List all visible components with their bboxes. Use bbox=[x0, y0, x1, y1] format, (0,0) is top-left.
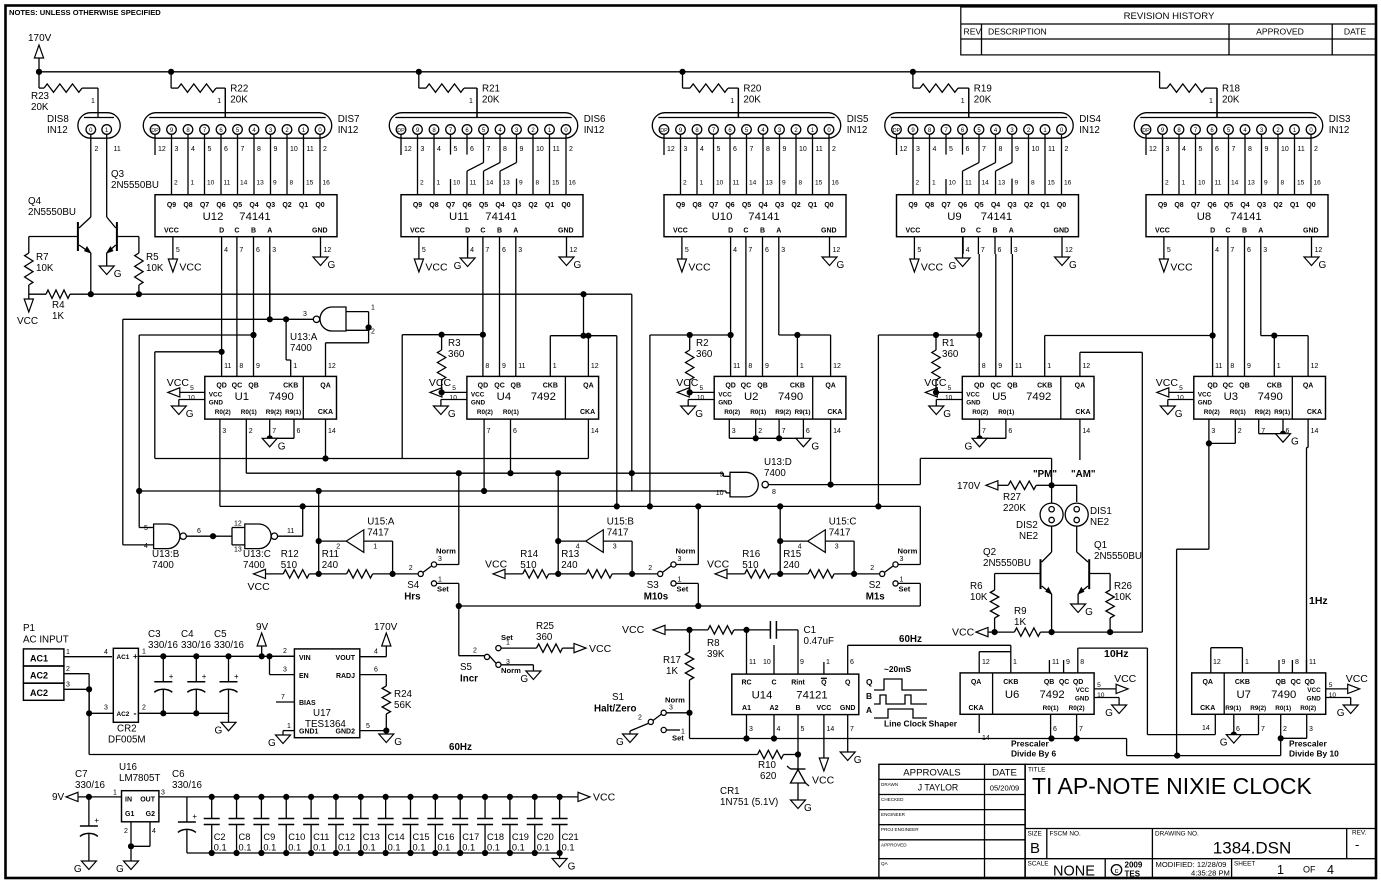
svg-text:VCC: VCC bbox=[966, 392, 980, 399]
revision history table bbox=[961, 7, 1377, 55]
svg-text:R7: R7 bbox=[36, 252, 49, 263]
wires DIS7 cathodes bbox=[172, 134, 321, 195]
svg-text:0.47uF: 0.47uF bbox=[804, 636, 835, 647]
svg-text:5: 5 bbox=[422, 247, 426, 254]
svg-text:20K: 20K bbox=[230, 95, 248, 106]
svg-text:510: 510 bbox=[520, 560, 537, 571]
svg-text:G: G bbox=[616, 737, 624, 748]
svg-text:9: 9 bbox=[782, 180, 786, 187]
nixie tube DIS3 IN12 bbox=[1134, 113, 1351, 153]
svg-text:Q3: Q3 bbox=[1257, 202, 1266, 209]
svg-text:NONE: NONE bbox=[1053, 864, 1095, 880]
svg-text:2: 2 bbox=[1283, 726, 1287, 733]
wire U4 CKA bbox=[587, 419, 589, 458]
svg-text:RC: RC bbox=[741, 680, 751, 687]
svg-text:Q9: Q9 bbox=[167, 202, 176, 209]
svg-text:FSCM NO.: FSCM NO. bbox=[1050, 831, 1081, 838]
svg-text:7: 7 bbox=[850, 726, 854, 733]
svg-text:C4: C4 bbox=[181, 629, 194, 640]
power 170V PM bbox=[957, 481, 1008, 492]
svg-text:2: 2 bbox=[638, 715, 642, 722]
svg-text:3: 3 bbox=[104, 705, 108, 712]
svg-text:7492: 7492 bbox=[1026, 391, 1051, 403]
resistor R25 360 bbox=[501, 621, 574, 652]
svg-text:DIS8: DIS8 bbox=[47, 114, 69, 125]
svg-text:NE2: NE2 bbox=[1019, 531, 1038, 542]
wire QB to U13:B bbox=[139, 332, 256, 527]
svg-text:0.1: 0.1 bbox=[214, 843, 227, 853]
svg-text:8: 8 bbox=[1281, 180, 1285, 187]
svg-text:VCC: VCC bbox=[485, 559, 508, 571]
power VCC U12 bbox=[168, 237, 202, 274]
svg-text:1: 1 bbox=[1209, 98, 1213, 105]
svg-text:R17: R17 bbox=[663, 655, 681, 666]
svg-text:U10: U10 bbox=[712, 211, 733, 223]
zener diode CR1 1N751 bbox=[720, 755, 809, 809]
svg-text:Q2: Q2 bbox=[282, 202, 291, 209]
ground U5 bbox=[929, 400, 963, 421]
svg-text:4: 4 bbox=[104, 649, 108, 656]
svg-text:2: 2 bbox=[683, 180, 687, 187]
svg-text:R25: R25 bbox=[536, 621, 555, 632]
wire DIS4 DP stub bbox=[896, 134, 898, 155]
svg-text:7490: 7490 bbox=[1271, 689, 1296, 701]
svg-text:G: G bbox=[1291, 437, 1299, 448]
svg-text:R10: R10 bbox=[758, 760, 777, 771]
svg-text:10: 10 bbox=[1281, 146, 1289, 153]
svg-text:0.1: 0.1 bbox=[288, 843, 301, 853]
svg-text:G2: G2 bbox=[146, 811, 155, 818]
svg-text:A: A bbox=[776, 228, 781, 235]
svg-text:C: C bbox=[743, 228, 748, 235]
svg-text:C1: C1 bbox=[804, 625, 817, 636]
wires DIS5 cathodes bbox=[681, 134, 830, 195]
svg-text:G: G bbox=[965, 441, 973, 452]
svg-text:U13:A: U13:A bbox=[290, 332, 318, 343]
resistor R24 56K bbox=[382, 686, 412, 731]
svg-text:10: 10 bbox=[1032, 146, 1040, 153]
title box bbox=[1025, 764, 1376, 879]
svg-text:10: 10 bbox=[1176, 395, 1184, 402]
ground U9 D pin bbox=[949, 237, 971, 272]
svg-text:R26: R26 bbox=[1114, 581, 1133, 592]
wire U2 CKB QA loop bbox=[795, 332, 831, 376]
svg-text:8: 8 bbox=[766, 146, 770, 153]
svg-text:7: 7 bbox=[782, 428, 786, 435]
svg-text:QC: QC bbox=[232, 383, 243, 390]
ground S1 bbox=[616, 734, 638, 748]
svg-text:6: 6 bbox=[470, 146, 474, 153]
svg-text:VCC: VCC bbox=[589, 643, 612, 655]
wire DIS3 DP stub bbox=[1145, 134, 1147, 155]
svg-text:5: 5 bbox=[917, 247, 921, 254]
svg-text:11: 11 bbox=[470, 180, 477, 187]
svg-text:12: 12 bbox=[234, 521, 242, 528]
capacitor C3 330/16 bbox=[148, 629, 179, 713]
svg-text:G: G bbox=[943, 409, 951, 420]
svg-text:1: 1 bbox=[438, 577, 442, 584]
svg-text:C6: C6 bbox=[172, 769, 185, 780]
svg-text:13: 13 bbox=[766, 180, 774, 187]
svg-text:240: 240 bbox=[783, 560, 800, 571]
svg-text:B: B bbox=[1242, 228, 1247, 235]
svg-text:14: 14 bbox=[1202, 725, 1210, 732]
svg-text:IN12: IN12 bbox=[1329, 125, 1350, 136]
svg-text:U2: U2 bbox=[744, 391, 758, 403]
svg-text:VCC: VCC bbox=[425, 262, 448, 274]
svg-text:Q0: Q0 bbox=[1306, 202, 1315, 209]
svg-text:QA: QA bbox=[583, 383, 594, 390]
svg-text:Q2: Q2 bbox=[983, 547, 996, 558]
svg-text:2: 2 bbox=[420, 180, 424, 187]
resistor R13 240 bbox=[558, 549, 635, 578]
svg-text:G: G bbox=[811, 441, 819, 452]
svg-text:2: 2 bbox=[1238, 428, 1242, 435]
svg-text:A: A bbox=[866, 705, 872, 715]
svg-text:2: 2 bbox=[832, 146, 836, 153]
svg-text:Q2: Q2 bbox=[528, 202, 537, 209]
svg-text:G: G bbox=[215, 725, 223, 736]
svg-text:11: 11 bbox=[733, 180, 740, 187]
svg-text:7417: 7417 bbox=[829, 528, 851, 539]
svg-text:6: 6 bbox=[374, 667, 378, 674]
svg-text:DP: DP bbox=[397, 128, 405, 134]
svg-text:7: 7 bbox=[982, 146, 986, 153]
svg-text:QC: QC bbox=[1290, 679, 1301, 686]
svg-text:C14: C14 bbox=[388, 832, 405, 842]
svg-text:DIS1: DIS1 bbox=[1090, 506, 1112, 517]
svg-text:S2: S2 bbox=[869, 580, 881, 591]
svg-text:9: 9 bbox=[800, 659, 804, 666]
one-shot U14 74121 bbox=[732, 674, 859, 715]
svg-text:VCC: VCC bbox=[1156, 377, 1179, 389]
ground U2 reset pins bbox=[729, 419, 819, 452]
wire anode DIS3 bbox=[1216, 88, 1218, 117]
svg-text:QD: QD bbox=[1304, 679, 1315, 686]
svg-text:6: 6 bbox=[513, 428, 517, 435]
svg-text:8: 8 bbox=[772, 489, 776, 496]
svg-text:C11: C11 bbox=[313, 832, 329, 842]
svg-text:EN: EN bbox=[299, 673, 309, 680]
svg-text:QC: QC bbox=[991, 383, 1002, 390]
svg-text:1: 1 bbox=[1277, 363, 1281, 370]
svg-text:11: 11 bbox=[287, 528, 294, 535]
svg-text:A: A bbox=[1258, 228, 1263, 235]
svg-text:C8: C8 bbox=[239, 832, 251, 842]
wires U2 top pins bbox=[733, 363, 841, 370]
svg-text:+: + bbox=[202, 672, 207, 681]
svg-text:+: + bbox=[169, 672, 174, 681]
wire cap bank gnd bus bbox=[187, 852, 560, 854]
svg-text:B: B bbox=[1030, 840, 1040, 857]
line clock shaper waveforms bbox=[866, 664, 958, 729]
ground U11 bbox=[559, 237, 582, 271]
svg-text:GND: GND bbox=[840, 705, 856, 712]
svg-text:9: 9 bbox=[1282, 659, 1286, 666]
svg-text:1K: 1K bbox=[666, 666, 678, 677]
svg-text:240: 240 bbox=[322, 560, 339, 571]
wire U7 QA loop bbox=[1211, 648, 1249, 673]
svg-text:CKB: CKB bbox=[1267, 383, 1282, 390]
svg-text:2: 2 bbox=[569, 146, 573, 153]
capacitor C7 330/16 bbox=[75, 769, 106, 861]
svg-text:9: 9 bbox=[273, 180, 277, 187]
svg-text:14: 14 bbox=[827, 726, 835, 733]
svg-text:10: 10 bbox=[763, 659, 771, 666]
svg-text:7400: 7400 bbox=[152, 560, 174, 571]
svg-text:3: 3 bbox=[1309, 726, 1313, 733]
nixie tube DIS5 IN12 bbox=[652, 113, 869, 153]
svg-text:G: G bbox=[568, 862, 576, 873]
svg-text:05/20/09: 05/20/09 bbox=[990, 784, 1020, 793]
wires U8 to U3 bbox=[1213, 254, 1275, 376]
svg-text:IN: IN bbox=[125, 797, 132, 804]
svg-text:16: 16 bbox=[832, 180, 840, 187]
svg-text:+: + bbox=[192, 812, 197, 821]
svg-text:7490: 7490 bbox=[778, 391, 803, 403]
svg-text:G: G bbox=[74, 864, 82, 875]
svg-text:G1: G1 bbox=[125, 811, 134, 818]
wire DIS7 DP stub bbox=[154, 134, 156, 155]
svg-text:GND: GND bbox=[718, 400, 733, 407]
svg-text:QD: QD bbox=[216, 383, 227, 390]
svg-text:16: 16 bbox=[569, 180, 577, 187]
svg-text:QA: QA bbox=[1303, 383, 1314, 390]
svg-text:Q6: Q6 bbox=[216, 202, 225, 209]
svg-text:Q3: Q3 bbox=[775, 202, 784, 209]
svg-text:Q: Q bbox=[821, 680, 827, 687]
svg-text:4: 4 bbox=[733, 247, 737, 254]
svg-text:GND: GND bbox=[471, 400, 486, 407]
svg-text:1Hz: 1Hz bbox=[1309, 595, 1328, 607]
wire VIN bbox=[270, 648, 295, 656]
ground U8 bbox=[1304, 237, 1327, 271]
counter U5 7492 bbox=[962, 376, 1094, 419]
svg-text:B: B bbox=[497, 228, 502, 235]
wires U6 R0 pins divide by 6 bbox=[1011, 714, 1083, 758]
svg-text:7: 7 bbox=[748, 247, 752, 254]
svg-text:12: 12 bbox=[833, 247, 841, 254]
svg-text:Q6: Q6 bbox=[958, 202, 967, 209]
svg-text:4: 4 bbox=[374, 649, 378, 656]
svg-text:G: G bbox=[574, 260, 582, 271]
switch S2 M1s bbox=[854, 547, 920, 607]
svg-text:14: 14 bbox=[328, 428, 336, 435]
svg-text:G: G bbox=[116, 864, 124, 875]
svg-text:12: 12 bbox=[667, 146, 675, 153]
svg-text:11: 11 bbox=[733, 363, 740, 370]
svg-text:0.1: 0.1 bbox=[487, 843, 500, 853]
svg-text:4: 4 bbox=[576, 544, 580, 551]
svg-text:DF005M: DF005M bbox=[108, 735, 146, 746]
svg-text:B: B bbox=[251, 228, 256, 235]
svg-text:Q3: Q3 bbox=[512, 202, 521, 209]
svg-text:VCC: VCC bbox=[812, 775, 835, 787]
svg-text:R9(1): R9(1) bbox=[1274, 409, 1290, 416]
svg-text:CKA: CKA bbox=[1200, 705, 1215, 712]
svg-text:2N5550BU: 2N5550BU bbox=[1094, 551, 1142, 562]
buffer U15:C 7417 bbox=[778, 506, 857, 574]
svg-text:Set: Set bbox=[501, 633, 513, 642]
svg-text:VCC: VCC bbox=[1170, 262, 1193, 274]
wire U6 CKA bbox=[979, 714, 990, 742]
svg-text:9: 9 bbox=[502, 363, 506, 370]
svg-text:IN12: IN12 bbox=[847, 125, 868, 136]
svg-text:IN12: IN12 bbox=[1079, 125, 1100, 136]
wire U1 QA bbox=[326, 330, 369, 376]
svg-text:Q8: Q8 bbox=[183, 202, 192, 209]
svg-text:Q7: Q7 bbox=[1191, 202, 1200, 209]
svg-text:Q2: Q2 bbox=[1024, 202, 1033, 209]
svg-text:R11: R11 bbox=[322, 549, 339, 560]
svg-text:GND: GND bbox=[1306, 696, 1321, 703]
svg-text:8: 8 bbox=[485, 363, 489, 370]
wires U10 BCD outputs bbox=[731, 237, 786, 254]
counter U1 7490 bbox=[205, 376, 337, 419]
nixie tube DIS7 IN12 bbox=[143, 113, 359, 153]
wires U12 BCD outputs bbox=[222, 237, 277, 254]
svg-text:C17: C17 bbox=[462, 832, 479, 842]
svg-text:Q0: Q0 bbox=[315, 202, 324, 209]
wire DIS8 pin0 bbox=[90, 134, 92, 217]
svg-text:1: 1 bbox=[730, 98, 734, 105]
svg-text:CR1: CR1 bbox=[720, 786, 740, 797]
wires U9 BCD outputs bbox=[963, 237, 1018, 254]
svg-text:CKA: CKA bbox=[827, 409, 842, 416]
svg-text:DATE: DATE bbox=[1344, 27, 1367, 37]
wires U4 top pins bbox=[485, 363, 598, 370]
svg-text:5: 5 bbox=[208, 146, 212, 153]
svg-text:620: 620 bbox=[760, 771, 777, 782]
svg-text:M1s: M1s bbox=[866, 592, 886, 603]
svg-text:DIS2: DIS2 bbox=[1016, 520, 1038, 531]
svg-text:13: 13 bbox=[234, 547, 242, 554]
ground U10 bbox=[822, 237, 845, 271]
svg-text:Q: Q bbox=[845, 680, 851, 687]
svg-text:S5: S5 bbox=[460, 662, 473, 673]
svg-text:11: 11 bbox=[1015, 363, 1022, 370]
svg-text:G: G bbox=[278, 441, 286, 452]
svg-text:4: 4 bbox=[966, 247, 970, 254]
wire top 170V bus bbox=[36, 69, 1159, 88]
wires U5 top pins bbox=[982, 363, 1091, 370]
svg-text:R0(2): R0(2) bbox=[1300, 705, 1316, 712]
svg-text:9: 9 bbox=[1264, 180, 1268, 187]
svg-text:10: 10 bbox=[716, 180, 724, 187]
svg-text:6: 6 bbox=[1215, 146, 1219, 153]
svg-text:3: 3 bbox=[669, 705, 673, 712]
svg-text:VCC: VCC bbox=[1076, 687, 1090, 694]
counter U6 7492 bbox=[960, 673, 1094, 714]
power VCC U1 bbox=[167, 377, 205, 402]
svg-text:10: 10 bbox=[187, 395, 195, 402]
connector P1 AC INPUT bbox=[23, 623, 69, 700]
svg-text:Hrs: Hrs bbox=[404, 592, 421, 603]
svg-text:4: 4 bbox=[437, 146, 441, 153]
svg-text:U15:C: U15:C bbox=[829, 517, 857, 528]
svg-text:D: D bbox=[1210, 228, 1215, 235]
capacitor C6 330/16 bbox=[172, 769, 203, 853]
svg-text:2: 2 bbox=[142, 705, 146, 712]
svg-text:1: 1 bbox=[113, 790, 117, 797]
wire Q pin bbox=[848, 645, 854, 674]
svg-text:11: 11 bbox=[307, 146, 314, 153]
svg-text:Q1: Q1 bbox=[299, 202, 308, 209]
svg-text:2: 2 bbox=[283, 648, 287, 655]
svg-text:R15: R15 bbox=[783, 549, 802, 560]
wire bus L1 bbox=[155, 458, 589, 460]
svg-text:U11: U11 bbox=[449, 211, 469, 223]
svg-text:1: 1 bbox=[1277, 863, 1284, 877]
nixie tube DIS6 IN12 bbox=[389, 113, 606, 153]
svg-text:9: 9 bbox=[1265, 146, 1269, 153]
svg-text:G: G bbox=[520, 674, 528, 685]
svg-text:AC1: AC1 bbox=[117, 654, 130, 661]
svg-text:0.1: 0.1 bbox=[537, 843, 550, 853]
svg-text:GND: GND bbox=[1054, 228, 1070, 235]
svg-text:9: 9 bbox=[520, 146, 524, 153]
svg-text:QD: QD bbox=[725, 383, 736, 390]
ground U4 bbox=[433, 400, 467, 421]
svg-text:Q9: Q9 bbox=[1158, 202, 1167, 209]
svg-text:c: c bbox=[1115, 866, 1119, 875]
svg-text:39K: 39K bbox=[707, 649, 725, 660]
nixie tube DIS4 IN12 bbox=[885, 113, 1102, 153]
svg-text:4: 4 bbox=[1182, 146, 1186, 153]
svg-text:R0(1): R0(1) bbox=[1043, 705, 1059, 712]
svg-text:QA: QA bbox=[1075, 383, 1086, 390]
svg-text:C19: C19 bbox=[512, 832, 529, 842]
ground U9 bbox=[1055, 237, 1078, 271]
power VCC cap bank bbox=[578, 792, 616, 804]
nand gate U13:D 7400 bbox=[716, 457, 1052, 497]
svg-text:3: 3 bbox=[732, 428, 736, 435]
svg-text:7: 7 bbox=[241, 146, 245, 153]
wires U5 bottom pins bbox=[982, 428, 1090, 435]
svg-text:1K: 1K bbox=[1014, 617, 1026, 628]
resistor R22 20K bbox=[169, 69, 174, 74]
svg-text:+: + bbox=[94, 816, 99, 825]
svg-text:QC: QC bbox=[1223, 383, 1234, 390]
svg-text:G: G bbox=[949, 261, 957, 272]
svg-text:R8: R8 bbox=[707, 638, 720, 649]
svg-text:10: 10 bbox=[716, 490, 724, 497]
svg-text:3: 3 bbox=[613, 544, 617, 551]
svg-text:C5: C5 bbox=[214, 629, 227, 640]
svg-text:Q4: Q4 bbox=[495, 202, 504, 209]
svg-text:A1: A1 bbox=[742, 705, 751, 712]
svg-text:Divide By 6: Divide By 6 bbox=[1011, 749, 1056, 759]
svg-text:3: 3 bbox=[303, 311, 307, 318]
svg-text:R16: R16 bbox=[742, 549, 761, 560]
svg-text:0.1: 0.1 bbox=[437, 843, 450, 853]
svg-text:R0(1): R0(1) bbox=[1275, 705, 1291, 712]
wire 60Hz line bbox=[89, 689, 757, 754]
ground CR1 bbox=[791, 800, 813, 814]
svg-text:C3: C3 bbox=[148, 629, 161, 640]
wires U7 R0 pins divide by 10 bbox=[1127, 714, 1340, 758]
svg-text:QB: QB bbox=[1275, 679, 1286, 686]
svg-text:1: 1 bbox=[678, 577, 682, 584]
power VCC at R4 bbox=[17, 294, 38, 327]
svg-text:1: 1 bbox=[293, 363, 297, 370]
svg-text:510: 510 bbox=[742, 560, 759, 571]
svg-text:11: 11 bbox=[1309, 659, 1316, 666]
svg-text:Q1: Q1 bbox=[1094, 540, 1107, 551]
svg-text:9V: 9V bbox=[52, 792, 65, 803]
svg-text:74121: 74121 bbox=[796, 690, 827, 702]
svg-text:3: 3 bbox=[518, 247, 522, 254]
